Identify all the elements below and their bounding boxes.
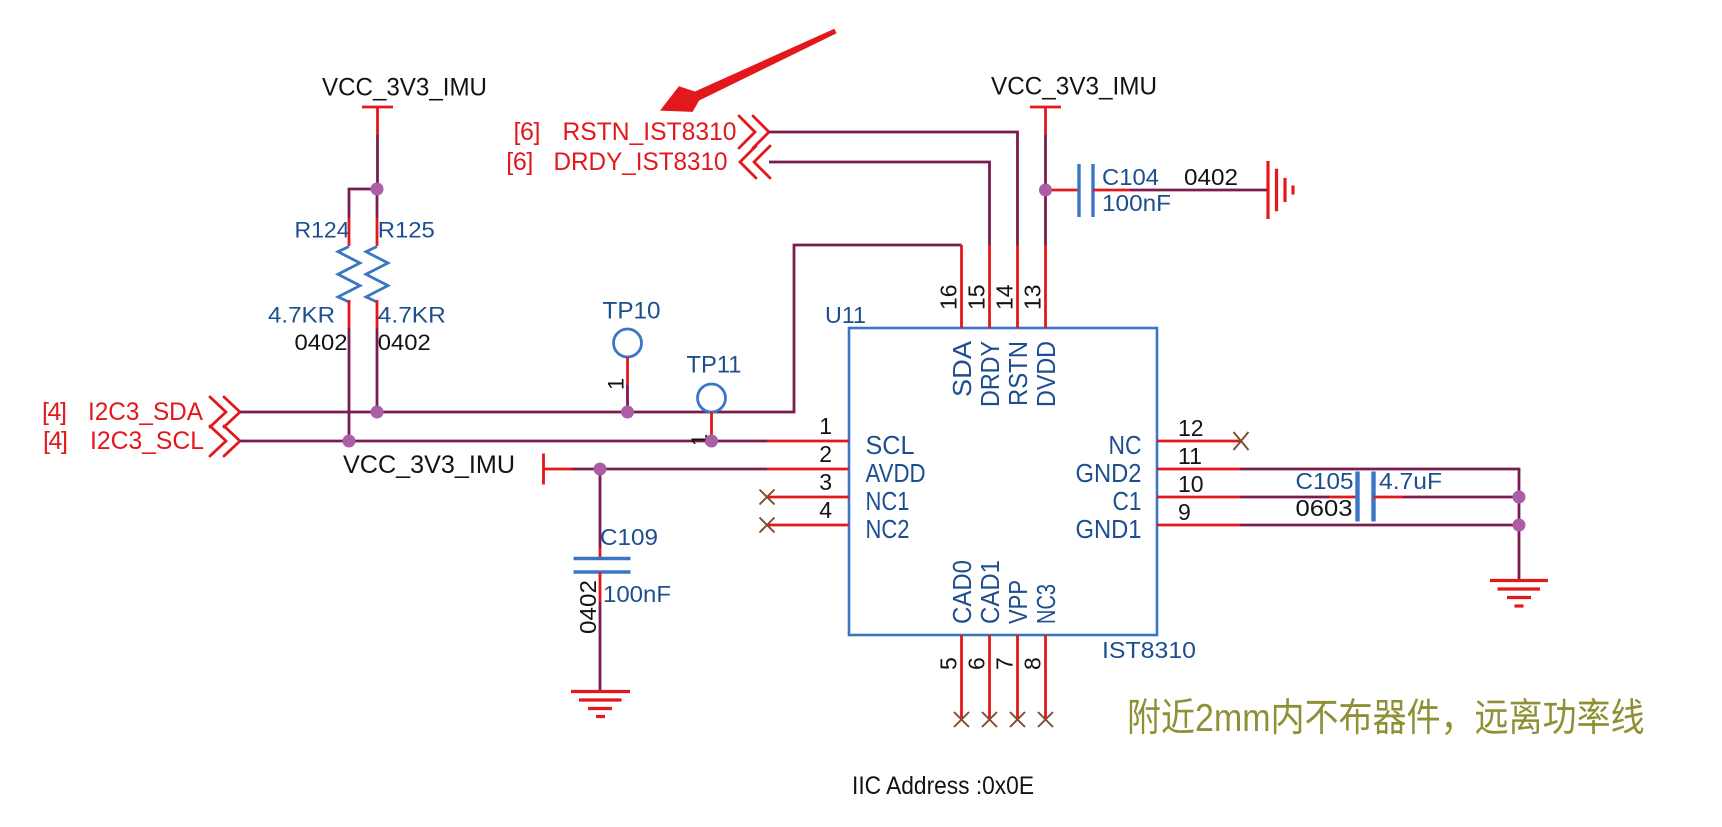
test point TP10 (603, 298, 661, 391)
wire C105 to GND2 net (1403, 496, 1519, 499)
wire I2C3_SCL (240, 440, 767, 443)
svg-text:8: 8 (1020, 657, 1046, 670)
svg-text:0402: 0402 (575, 580, 601, 634)
wire C1 to C105 (1240, 496, 1329, 499)
svg-text:IIC Address :0x0E: IIC Address :0x0E (852, 772, 1034, 800)
svg-text:U11: U11 (825, 302, 866, 328)
node C105/GND junction (1513, 491, 1526, 504)
svg-text:C105: C105 (1296, 468, 1354, 494)
net flag I2C3_SDA (42, 397, 240, 427)
node AVDD/C109 junction (594, 463, 607, 476)
node GND1 junction (1513, 519, 1526, 532)
svg-text:TP10: TP10 (603, 298, 661, 325)
pin 6 CAD1 (964, 560, 1006, 727)
svg-text:VCC_3V3_IMU: VCC_3V3_IMU (991, 73, 1157, 101)
wire R125 stem (376, 189, 379, 218)
svg-text:11: 11 (1178, 443, 1202, 469)
node VCC_3V3_IMU junction (R124/R125 split) (371, 183, 384, 196)
svg-text:3: 3 (819, 469, 832, 495)
svg-text:1: 1 (604, 378, 629, 390)
svg-text:0402: 0402 (1184, 164, 1238, 190)
pin 15 DRDY (964, 245, 1006, 407)
svg-text:IST8310: IST8310 (1102, 637, 1196, 663)
wire R124 branch (349, 189, 377, 218)
svg-text:GND2: GND2 (1076, 458, 1142, 488)
svg-text:9: 9 (1178, 499, 1191, 525)
wire AVDD (572, 468, 768, 471)
svg-text:RSTN_IST8310: RSTN_IST8310 (563, 118, 737, 146)
pin 2 AVDD (767, 441, 926, 488)
capacitor C105 (1296, 468, 1443, 522)
svg-text:DVDD: DVDD (1031, 341, 1061, 407)
svg-text:4.7uF: 4.7uF (1379, 468, 1442, 494)
pin 9 GND1 (1076, 499, 1241, 544)
svg-text:C1: C1 (1113, 486, 1142, 516)
pin 10 C1 (1113, 471, 1241, 516)
pin 16 SDA (936, 245, 978, 397)
pin 1 SCL (767, 413, 915, 460)
svg-text:AVDD: AVDD (866, 458, 926, 488)
svg-text:[6]: [6] (506, 148, 533, 176)
wire C109 stem (599, 469, 602, 548)
wire DRDY (769, 162, 990, 245)
svg-text:NC1: NC1 (866, 486, 910, 516)
node TP11/SCL junction (705, 435, 718, 448)
svg-text:[6]: [6] (514, 118, 541, 146)
pin 13 DVDD (1020, 245, 1062, 407)
svg-text:R125: R125 (378, 218, 435, 243)
svg-text:4.7KR: 4.7KR (268, 303, 335, 328)
svg-text:C109: C109 (600, 524, 658, 550)
wire R124 to SCL (348, 328, 351, 441)
svg-text:SDA: SDA (947, 340, 977, 397)
power VCC_3V3_IMU top-right (991, 73, 1157, 136)
pin 3 NC1 (760, 469, 910, 516)
svg-text:C104: C104 (1102, 164, 1159, 190)
svg-text:5: 5 (936, 657, 962, 670)
wire RSTN (769, 132, 1018, 245)
ground (C104, rotated) (1268, 161, 1293, 219)
resistor R125 (366, 218, 446, 356)
svg-text:VCC_3V3_IMU: VCC_3V3_IMU (322, 74, 487, 102)
svg-text:DRDY: DRDY (975, 341, 1005, 407)
svg-text:CAD1: CAD1 (975, 560, 1005, 624)
pin 11 GND2 (1076, 443, 1241, 488)
wire TP10 to SDA (626, 385, 629, 412)
net flag I2C3_SCL (43, 426, 240, 456)
net flag RSTN_IST8310 (514, 116, 770, 148)
wire I2C3_SDA (240, 245, 962, 412)
capacitor C104 (1051, 164, 1238, 217)
ground (C109) (571, 692, 630, 717)
pin 5 CAD0 (936, 560, 978, 727)
svg-text:I2C3_SCL: I2C3_SCL (90, 427, 204, 455)
svg-text:7: 7 (992, 657, 1018, 670)
resistor R124 (268, 218, 360, 356)
svg-text:NC: NC (1109, 430, 1142, 460)
node R124/SCL junction (343, 435, 356, 448)
note Chinese annotation (1130, 698, 1644, 735)
svg-text:NC3: NC3 (1031, 584, 1061, 624)
op IC U11 IST8310 (825, 302, 1196, 663)
svg-text:SCL: SCL (866, 430, 915, 460)
wire VCC top-left stem (376, 135, 379, 189)
wire VCC right stem (1044, 135, 1047, 245)
svg-text:0402: 0402 (378, 330, 431, 355)
pin 12 NC (1109, 415, 1249, 460)
pin 14 RSTN (992, 245, 1034, 406)
svg-text:VCC_3V3_IMU: VCC_3V3_IMU (343, 451, 515, 479)
svg-text:[4]: [4] (43, 427, 68, 455)
test point TP11 (687, 352, 742, 447)
node TP10/SDA junction (621, 406, 634, 419)
svg-text:13: 13 (1020, 284, 1046, 310)
annotation arrow (660, 29, 837, 112)
wire GND2 net (1240, 469, 1519, 581)
svg-text:CAD0: CAD0 (947, 560, 977, 624)
svg-text:4.7KR: 4.7KR (378, 303, 446, 328)
wire R125 to SDA (376, 328, 379, 412)
svg-text:16: 16 (936, 284, 962, 310)
svg-text:12: 12 (1178, 415, 1204, 441)
net flag DRDY_IST8310 (506, 146, 770, 178)
pin 8 NC3 (1020, 584, 1062, 727)
svg-text:10: 10 (1178, 471, 1204, 497)
wire C109 to ground (599, 602, 602, 692)
svg-text:4: 4 (819, 497, 832, 523)
svg-text:VPP: VPP (1003, 580, 1033, 624)
svg-text:2: 2 (819, 441, 832, 467)
pin 7 VPP (992, 580, 1034, 727)
svg-text:[4]: [4] (42, 398, 67, 426)
ground (C105 net) (1490, 581, 1548, 607)
svg-text:6: 6 (964, 657, 990, 670)
svg-text:I2C3_SDA: I2C3_SDA (88, 398, 203, 426)
svg-text:NC2: NC2 (866, 514, 910, 544)
svg-text:100nF: 100nF (1102, 190, 1171, 216)
svg-text:RSTN: RSTN (1003, 341, 1033, 406)
svg-text:R124: R124 (295, 218, 350, 243)
svg-text:DRDY_IST8310: DRDY_IST8310 (554, 148, 728, 176)
power VCC_3V3_IMU mid (AVDD) (343, 451, 572, 485)
svg-text:14: 14 (992, 284, 1018, 310)
node VCC/C104 junction (1039, 184, 1052, 197)
node R125/SDA junction (371, 406, 384, 419)
svg-text:GND1: GND1 (1076, 514, 1142, 544)
svg-text:100nF: 100nF (603, 581, 671, 607)
capacitor C109 (574, 524, 672, 634)
svg-text:15: 15 (964, 284, 990, 310)
svg-text:1: 1 (819, 413, 832, 439)
svg-text:0603: 0603 (1296, 495, 1353, 521)
wire C104 to ground (1130, 189, 1268, 192)
svg-text:0402: 0402 (295, 330, 348, 355)
pin 4 NC2 (760, 497, 910, 544)
power VCC_3V3_IMU top-left (322, 74, 487, 136)
svg-text:TP11: TP11 (687, 352, 742, 379)
wire GND1 net (1240, 524, 1519, 527)
